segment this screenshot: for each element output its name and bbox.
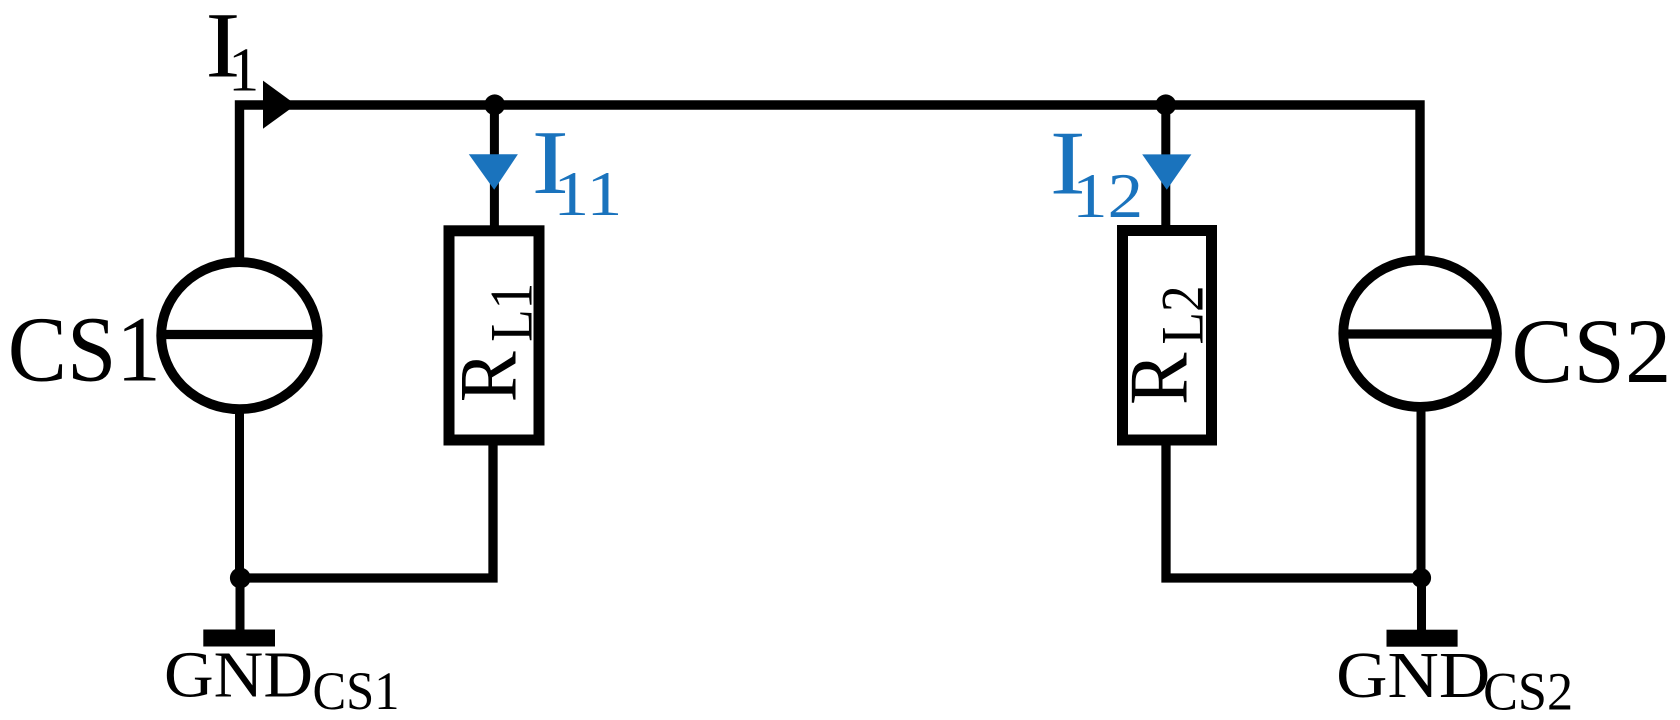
wire: riser from top bus to RL1 [490, 105, 499, 230]
wire: riser from top bus to RL2 [1161, 105, 1170, 230]
svg-text:R: R [443, 351, 534, 402]
svg-text:12: 12 [1072, 161, 1143, 231]
svg-text:CS2: CS2 [1511, 301, 1671, 403]
node dot top-right (RL2 tap) [1155, 94, 1176, 115]
current source CS2 body [1343, 260, 1497, 407]
resistor RL1 body [449, 231, 539, 440]
ground GND_CS1 bar [203, 630, 275, 647]
wire: CS1 bottom lead [235, 408, 244, 578]
current source CS1 body [161, 262, 317, 409]
wire: GND_CS2 stem [1417, 578, 1426, 631]
svg-text:GND: GND [1336, 640, 1490, 712]
wire: RL1 bottom to ground bus [241, 440, 494, 578]
arrow I12 (blue) [1142, 154, 1191, 189]
wire: RL2 bottom to ground bus [1166, 440, 1421, 578]
svg-text:L1: L1 [479, 283, 545, 342]
label RL1 (rotated) [443, 283, 545, 403]
wire: top bus from CS1 corner to CS2 corner [240, 105, 1421, 260]
node dot top-left (RL1 tap) [484, 94, 505, 115]
arrow I11 (blue) [469, 154, 518, 190]
ground GND_CS2 bar [1387, 630, 1458, 647]
current source CS2 bar [1344, 329, 1497, 338]
node dot bottom-right (GND node) [1412, 568, 1432, 588]
svg-text:L2: L2 [1149, 286, 1215, 345]
label RL2 (rotated) [1112, 286, 1215, 406]
svg-text:1: 1 [228, 37, 259, 105]
arrow I1 current direction [263, 81, 296, 129]
svg-text:CS1: CS1 [313, 661, 400, 720]
wire: GND_CS1 stem [236, 578, 245, 631]
svg-text:11: 11 [553, 159, 622, 229]
node dot bottom-left (GND node) [230, 568, 251, 589]
svg-text:GND: GND [164, 640, 313, 712]
svg-text:CS1: CS1 [8, 299, 161, 402]
svg-text:R: R [1112, 353, 1205, 406]
wire: CS2 bottom lead [1417, 406, 1426, 578]
resistor RL2 body [1123, 231, 1212, 441]
svg-text:CS2: CS2 [1483, 662, 1573, 720]
current source CS1 bar [160, 330, 319, 339]
